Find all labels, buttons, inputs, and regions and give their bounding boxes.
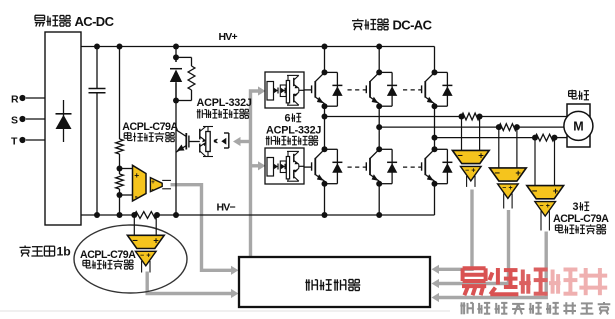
svg-text:-: - [152,187,154,193]
svg-text:+: + [146,253,150,260]
svg-text:HV−: HV− [217,202,236,214]
svg-text:−: − [532,186,538,197]
svg-text:−: − [457,151,463,162]
svg-text:−: − [494,168,500,179]
svg-text:T: T [11,136,18,148]
svg-text:ACPL-C79A: ACPL-C79A [553,213,609,225]
svg-text:+: + [553,186,559,197]
svg-text:AC-DC: AC-DC [75,14,115,29]
svg-text:3: 3 [573,201,579,213]
svg-text:+: + [151,180,155,186]
svg-text:+: + [509,185,513,192]
svg-text:ACPL-332J: ACPL-332J [197,97,252,109]
svg-text:ACPL-C79A: ACPL-C79A [122,121,178,133]
svg-text:S: S [11,115,18,127]
svg-text:+: + [546,203,550,210]
svg-text:−: − [132,236,138,247]
svg-text:−: − [502,185,506,192]
svg-text:−: − [140,253,144,260]
svg-text:HV+: HV+ [219,31,238,43]
svg-text:M: M [573,120,583,134]
svg-text:+: + [515,168,521,179]
svg-text:DC-AC: DC-AC [393,17,433,32]
svg-text:-: - [135,192,138,202]
svg-text:ACPL-332J: ACPL-332J [266,124,321,136]
svg-text:+: + [134,170,139,180]
svg-text:−: − [539,203,543,210]
svg-text:R: R [11,94,19,106]
svg-text:+: + [471,168,475,175]
svg-text:ACPL-C79A: ACPL-C79A [80,249,136,261]
svg-text:1b: 1b [57,245,71,259]
svg-text:6: 6 [285,112,291,124]
svg-text:+: + [153,236,159,247]
svg-text:−: − [465,168,469,175]
svg-text:+: + [478,151,484,162]
